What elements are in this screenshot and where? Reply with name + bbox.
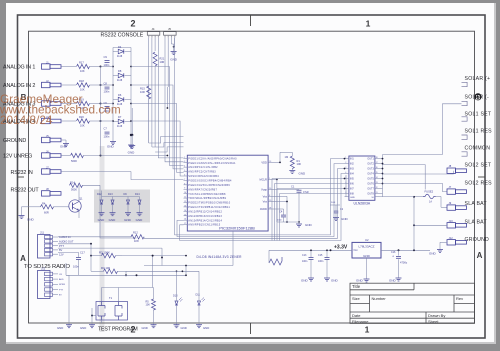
svg-text:Sheet: Sheet [428, 319, 439, 324]
wire R21 bottom down [154, 66, 156, 147]
svg-text:SOLAR (+: SOLAR (+ [465, 76, 491, 82]
mosfet Q2 symbol [98, 302, 105, 321]
wire bus stair 1 [100, 66, 102, 68]
resistor R1 pullup [290, 156, 294, 169]
svg-text:PGEC2/TDI/RPB11/CN12/RB11: PGEC2/TDI/RPB11/CN12/RB11 [188, 206, 230, 209]
svg-text:10K: 10K [80, 88, 85, 92]
wire bottom bus to mcu [185, 266, 187, 276]
svg-text:R12: R12 [133, 230, 138, 234]
ground under D13 [112, 212, 114, 213]
U1 left pin 7 [184, 184, 188, 186]
zone letter B right in filled circle [474, 93, 481, 100]
svg-text:10R: 10R [140, 90, 145, 94]
svg-text:4148: 4148 [117, 80, 123, 82]
socket bracket right 3 [462, 117, 468, 121]
wire ladder bottom gnd [112, 140, 114, 142]
capacitor C1 47uF Vcap [275, 189, 296, 191]
ground under D9 [127, 212, 129, 213]
U1 left pin 13 [184, 210, 188, 212]
junction analog node J1 [100, 66, 102, 68]
svg-text:D4-D8 IN4148A 3V3 ZENER: D4-D8 IN4148A 3V3 ZENER [197, 255, 243, 259]
svg-text:14: 14 [184, 210, 186, 212]
wire J3 to resistor [62, 103, 77, 105]
svg-text:12V UNREG: 12V UNREG [3, 154, 32, 160]
U1 right pin MCLR [268, 179, 274, 181]
svg-text:IN4: IN4 [350, 173, 354, 176]
wire R17 to node [90, 66, 101, 68]
svg-text:J12: J12 [449, 236, 454, 240]
svg-text:AN9/RPB15/CN11/RB15: AN9/RPB15/CN11/RB15 [188, 224, 220, 227]
svg-text:AN5/RPC2/CNT/RB3: AN5/RPC2/CNT/RB3 [188, 171, 216, 174]
U3 IN8 pin [345, 192, 349, 194]
svg-text:20: 20 [269, 188, 271, 190]
svg-text:16: 16 [184, 219, 186, 221]
svg-text:AN11/RPB13/CN13/RB13: AN11/RPB13/CN13/RB13 [188, 215, 222, 218]
wire out row6 to SOL2 RES plug [383, 183, 448, 191]
svg-text:5600: 5600 [71, 159, 77, 163]
wire R14 to Q1 [83, 184, 101, 186]
resistor R16 3v3 sense [269, 257, 282, 265]
svg-text:28: 28 [269, 207, 271, 209]
zone tick top [250, 15, 252, 26]
U3 OUT8 pin [375, 192, 380, 194]
svg-text:C7: C7 [104, 127, 108, 131]
svg-text:Vcap: Vcap [261, 188, 267, 192]
socket bracket right 2 [462, 101, 468, 105]
ground GND under R1 [291, 169, 293, 171]
socket bracket right 1 [462, 82, 468, 86]
wire VDD to 3.3V [275, 161, 281, 163]
svg-text:GND: GND [27, 218, 35, 222]
U3 IN2 pin [345, 163, 349, 165]
svg-text:TCK/SCL1/RPB8/CN22/RB8: TCK/SCL1/RPB8/CN22/RB8 [188, 193, 226, 196]
svg-text:D4: D4 [118, 45, 122, 49]
wire J4 to resistor [62, 120, 77, 122]
wire test box top feed [101, 288, 103, 302]
resistor R16 [71, 153, 84, 157]
svg-text:10K: 10K [80, 124, 85, 128]
svg-text:R4: R4 [42, 202, 46, 206]
svg-text:Size: Size [352, 296, 361, 301]
wire R18 to node [90, 84, 101, 86]
svg-text:GND: GND [98, 218, 106, 222]
svg-text:R18: R18 [79, 79, 84, 83]
wire test box to gnd [92, 315, 96, 317]
wire bus under MCU line1 [175, 38, 345, 235]
ground symbol at J5 [65, 142, 67, 144]
junction analog node J2 [100, 84, 102, 86]
svg-text:GND: GND [80, 326, 86, 330]
U3 OUT7 pin [375, 187, 380, 189]
svg-text:GND: GND [341, 217, 349, 221]
wire out row4 to SOL2 SET plug [383, 171, 454, 174]
svg-text:13: 13 [376, 182, 378, 184]
wire audio bus verticals [125, 271, 127, 275]
ground GND near J5 [173, 50, 175, 52]
svg-text:OUT8: OUT8 [367, 192, 374, 195]
ground GND bottom row 3 [153, 324, 155, 325]
svg-text:SPKR: SPKR [59, 284, 65, 286]
svg-text:GND: GND [305, 223, 313, 227]
svg-text:A: A [477, 251, 483, 260]
wire console tx down long [166, 87, 168, 108]
ground under D14 [139, 212, 141, 213]
svg-text:D11: D11 [196, 293, 201, 296]
svg-text:1M: 1M [285, 155, 289, 159]
svg-text:C16: C16 [391, 251, 396, 254]
junction J5 pin4 [173, 46, 175, 48]
svg-text:Rev: Rev [456, 296, 463, 301]
svg-text:17: 17 [184, 223, 186, 225]
U1 right pin Vss [268, 201, 274, 203]
wire J5 pin1 down [164, 38, 166, 158]
wire stair bundle from console [149, 137, 184, 162]
svg-text:4: 4 [184, 166, 185, 168]
svg-text:Vss: Vss [263, 195, 268, 199]
svg-text:TO SD125 RADIO: TO SD125 RADIO [24, 264, 70, 270]
wire ULN gnd down [345, 175, 347, 197]
resistor R21 vertical [153, 52, 157, 66]
wire J2 to resistor [62, 84, 77, 86]
svg-text:Number: Number [372, 296, 387, 301]
svg-text:16: 16 [376, 167, 378, 169]
svg-text:GND: GND [363, 254, 371, 258]
ground under C13 [310, 277, 312, 279]
svg-text:GND: GND [136, 218, 144, 222]
svg-text:A: A [20, 254, 26, 263]
svg-text:Vss: Vss [263, 200, 268, 204]
junction dots at ULN inputs [344, 158, 346, 160]
svg-text:GND: GND [181, 326, 187, 330]
svg-text:IN5: IN5 [350, 178, 354, 181]
U3 OUT4 pin [375, 173, 380, 175]
svg-text:+3.3V: +3.3V [334, 244, 348, 250]
svg-text:2: 2 [345, 162, 346, 164]
svg-text:GND: GND [389, 279, 397, 283]
svg-text:100n: 100n [104, 135, 110, 139]
wire feed from R2 row [152, 256, 154, 288]
wire 3.3V rail left [269, 249, 352, 251]
svg-text:RS232 CONSOLE: RS232 CONSOLE [101, 33, 144, 39]
svg-text:6: 6 [184, 174, 185, 176]
U1 left pin 9 [184, 193, 188, 195]
wire audio out row [58, 243, 91, 245]
svg-text:GROUND: GROUND [465, 237, 490, 243]
wire Q1 collector up [78, 185, 80, 201]
wire PTT drop to note row [161, 248, 163, 257]
svg-text:J5: J5 [168, 27, 171, 31]
gray selection box behind clamp diodes [94, 190, 150, 223]
wire bus under MCU line4 [180, 174, 345, 241]
U3 IN6 pin [345, 183, 349, 185]
svg-text:FUSE2: FUSE2 [425, 189, 434, 193]
svg-text:D14: D14 [135, 193, 140, 196]
svg-text:PIC32MX150F128B: PIC32MX150F128B [219, 225, 255, 230]
wire ULN output stubs [380, 155, 383, 197]
ground GND below C1 [277, 221, 299, 223]
svg-text:4: 4 [345, 172, 346, 174]
svg-text:1: 1 [269, 178, 270, 180]
svg-text:10K: 10K [297, 162, 302, 166]
U1 left pin 15 [184, 219, 188, 221]
svg-text:60R: 60R [44, 211, 49, 215]
U1 left pin 3 [184, 166, 188, 168]
svg-text:1: 1 [345, 157, 346, 159]
svg-text:Filename: Filename [352, 319, 369, 324]
IC U1 PIC32MX150F128B body [187, 155, 268, 231]
wire R20 to node [90, 120, 101, 122]
U1 left pin 8 [184, 188, 188, 190]
wire ground plug to gnd [440, 241, 447, 243]
wires into ULN IN5-8 [272, 179, 345, 241]
svg-text:GND: GND [128, 151, 136, 155]
wire reg in up to fuse node [413, 197, 415, 250]
svg-text:J11: J11 [40, 231, 45, 235]
svg-text:10K: 10K [146, 304, 151, 307]
zone tick right [478, 176, 485, 178]
svg-text:12: 12 [184, 201, 186, 203]
ground GND bottom row 2 [91, 324, 93, 325]
crystal Y1 cluster [330, 204, 340, 206]
svg-text:ANALOG IN 2: ANALOG IN 2 [3, 83, 35, 89]
svg-text:PGED1/C2IN-/AN2/RPA0/CNA0/RA0: PGED1/C2IN-/AN2/RPA0/CNA0/RA0 [188, 157, 237, 160]
U1 left pin 12 [184, 206, 188, 208]
svg-text:100n: 100n [302, 260, 308, 263]
ground GND bottom row 5 [198, 324, 200, 325]
svg-text:J10: J10 [449, 219, 454, 223]
U3 OUT6 pin [375, 183, 380, 185]
wire J1 to resistor [62, 66, 77, 68]
svg-text:GND: GND [429, 252, 437, 256]
wire Vss join [275, 195, 288, 197]
svg-text:9: 9 [184, 188, 185, 190]
svg-text:1A: 1A [429, 201, 432, 204]
U3 OUT5 pin [375, 178, 380, 180]
svg-text:COMMON: COMMON [465, 145, 491, 151]
svg-text:AN10/RPB14/CN12/RB14: AN10/RPB14/CN12/RB14 [188, 219, 222, 222]
svg-text:3: 3 [345, 167, 346, 169]
svg-text:11: 11 [184, 197, 186, 199]
svg-text:AN4/RPC1/C1IN-/RB2: AN4/RPC1/C1IN-/RB2 [188, 166, 218, 169]
svg-text:14: 14 [376, 177, 378, 179]
ground GND bottom row 1 [68, 324, 70, 325]
junction mid rail [130, 134, 132, 136]
svg-text:SOL1 SET: SOL1 SET [465, 111, 492, 117]
wire R1 top to 3.3V stub [291, 152, 293, 156]
wire sla bat 2 row [414, 224, 447, 226]
svg-text:OUT6: OUT6 [367, 183, 374, 186]
wire R19 to node [90, 103, 101, 105]
connector J4 header [147, 32, 160, 36]
svg-text:2: 2 [184, 157, 185, 159]
wire bus under MCU line3 [144, 169, 345, 239]
wire C17 down to bus [78, 259, 80, 275]
wire fuse left to node [414, 196, 423, 198]
wire J6 to R16 [62, 155, 71, 157]
U1 right pin VDD [268, 161, 274, 163]
svg-text:GND: GND [350, 197, 355, 199]
svg-text:L78L33ACZ: L78L33ACZ [358, 244, 374, 248]
svg-text:RS232 IN: RS232 IN [11, 170, 33, 176]
vertical rail clamp right [130, 48, 132, 144]
svg-text:C9: C9 [104, 55, 108, 59]
wire J5 pin2 down [167, 38, 169, 87]
svg-text:8: 8 [184, 183, 185, 185]
svg-text:OUT1: OUT1 [367, 158, 374, 161]
wire left gnd drop [65, 263, 67, 275]
svg-text:2: 2 [130, 19, 135, 29]
svg-text:OUT5: OUT5 [367, 178, 374, 181]
junction stair node [167, 155, 169, 157]
wire reg gnd down [366, 258, 368, 278]
svg-text:5: 5 [184, 170, 185, 172]
U3 OUT2 pin [375, 163, 380, 165]
top rail wire [113, 47, 131, 49]
svg-text:13: 13 [269, 161, 271, 163]
IC U3 ULN2803A body [349, 156, 375, 200]
U1 right pin AVDD [268, 208, 274, 210]
wire R15 bottom down [148, 99, 150, 143]
wire bus under MCU line2 [177, 164, 345, 237]
svg-text:4148: 4148 [117, 126, 123, 128]
junction vss [286, 221, 288, 223]
wire R12 right continues as bus line3 [143, 237, 145, 239]
mosfet Q3 symbol [115, 302, 122, 321]
svg-text:OUT7: OUT7 [367, 187, 374, 190]
U1 left pin 11 [184, 202, 188, 204]
svg-text:8V: 8V [59, 248, 62, 252]
svg-text:10: 10 [184, 192, 186, 194]
svg-text:17: 17 [376, 162, 378, 164]
ground GND under regulator [366, 278, 368, 280]
svg-text:IN3: IN3 [350, 168, 354, 171]
svg-text:AUDIO OUT: AUDIO OUT [59, 240, 74, 244]
svg-text:+: + [392, 255, 394, 259]
U3 OUT1 pin [375, 158, 380, 160]
svg-text:ANALOG IN 1: ANALOG IN 1 [3, 65, 35, 71]
svg-text:D13: D13 [108, 193, 113, 196]
svg-text:TDO/SDA1/RPB9/CN21/RB9: TDO/SDA1/RPB9/CN21/RB9 [188, 197, 226, 200]
svg-text:OUT4: OUT4 [367, 173, 374, 176]
wire R2 right to mcu column [121, 255, 123, 257]
wire out bus top to SOLAR- bracket [383, 104, 462, 155]
resistor R5 vertical [152, 299, 156, 310]
svg-text:SOLAR (-: SOLAR (- [465, 95, 490, 101]
svg-text:4700u: 4700u [400, 261, 408, 265]
svg-text:PGEC3/AVXCL/RPB/CN24/RB6: PGEC3/AVXCL/RPB/CN24/RB6 [188, 184, 230, 187]
wire out row2 to fuse column [383, 165, 426, 190]
U3 IN1 pin [345, 158, 349, 160]
svg-text:1: 1 [365, 325, 370, 335]
svg-text:1: 1 [366, 19, 371, 29]
svg-text:SOL1 RES: SOL1 RES [465, 128, 493, 134]
vertical rail left analog bus [100, 67, 102, 156]
U1 left pin 5 [184, 175, 188, 177]
svg-text:Date: Date [352, 313, 361, 318]
wire fuse right to SLA BAT plug [436, 196, 441, 198]
svg-text:MCLR: MCLR [260, 178, 267, 182]
svg-text:100n: 100n [277, 220, 283, 222]
svg-text:4148: 4148 [117, 56, 123, 58]
ground under D12 [101, 212, 103, 213]
svg-text:19: 19 [269, 200, 271, 202]
resistor R15 vertical [147, 86, 151, 99]
ground GND mid sheet [131, 144, 133, 146]
wire clamp tops [102, 196, 140, 198]
socket bracket right 5 [462, 152, 468, 156]
svg-text:GND: GND [109, 218, 117, 222]
svg-text:RS232 OUT: RS232 OUT [11, 188, 40, 194]
svg-text:3: 3 [184, 161, 185, 163]
U1 right pin Vss [268, 195, 274, 197]
wire analog rows to mcu bus [100, 67, 184, 239]
svg-text:SLA BAT: SLA BAT [465, 201, 488, 207]
ground GND bottom row 4 [176, 324, 178, 325]
wire audio in row to R12 [58, 236, 131, 238]
svg-text:15: 15 [376, 172, 378, 174]
U1 left pin 6 [184, 179, 188, 181]
svg-text:SLA BAT: SLA BAT [465, 219, 488, 225]
U3 IN4 pin [345, 173, 349, 175]
junction analog node J4 [100, 120, 102, 122]
U1 left pin 2 [184, 162, 188, 164]
vertical rail diode ladder [112, 48, 114, 141]
svg-text:SOL2 RES: SOL2 RES [465, 180, 493, 186]
svg-text:IN6: IN6 [350, 183, 354, 186]
svg-text:AN9/RPA7/CN23/RB7: AN9/RPA7/CN23/RB7 [188, 188, 217, 191]
svg-text:GND: GND [203, 326, 209, 330]
wire 8V row to C17 [58, 251, 79, 253]
U3 IN3 pin [345, 168, 349, 170]
svg-text:D10: D10 [173, 294, 178, 297]
zone tick left [18, 176, 25, 178]
svg-text:GND: GND [170, 58, 178, 62]
wire J5 pin3 to gnd [170, 38, 172, 44]
U1 left pin 14 [184, 215, 188, 217]
svg-text:GND: GND [301, 279, 309, 283]
svg-text:Out: Out [354, 249, 358, 252]
wire J4 pin4 down [157, 38, 159, 152]
ground GND lower-left [21, 214, 23, 216]
wire r3 row extension [126, 270, 199, 272]
wire mcu bottom drop [232, 231, 234, 266]
svg-text:J12: J12 [41, 266, 46, 270]
svg-text:GROUND: GROUND [3, 138, 26, 144]
svg-text:AN12/RPB12/CN14/RB12: AN12/RPB12/CN14/RB12 [188, 210, 222, 213]
svg-text:D6: D6 [118, 93, 122, 97]
ground GND rail bottom [130, 144, 132, 146]
U1 right pin Vcap [268, 189, 274, 191]
svg-text:PGED2/TMS/PGB10/CNB/RB10: PGED2/TMS/PGB10/CNB/RB10 [188, 202, 230, 205]
svg-text:7: 7 [184, 179, 185, 181]
junction analog node J3 [100, 103, 102, 105]
svg-text:GND: GND [107, 145, 115, 149]
wire avdd down [275, 208, 284, 210]
svg-text:1K8: 1K8 [134, 239, 139, 243]
svg-text:15: 15 [184, 214, 186, 216]
svg-text:VDD: VDD [261, 161, 267, 165]
U3 IN5 pin [345, 178, 349, 180]
transistor Q1 circle [69, 200, 81, 212]
wire gnd stub [21, 207, 23, 214]
svg-text:GND: GND [57, 326, 63, 330]
svg-text:13: 13 [184, 205, 186, 207]
svg-text:R17: R17 [79, 60, 84, 64]
wire ground connector [62, 139, 67, 141]
U1 left pin 4 [184, 171, 188, 173]
wire R16 right [84, 155, 101, 157]
svg-text:10R: 10R [160, 60, 165, 64]
